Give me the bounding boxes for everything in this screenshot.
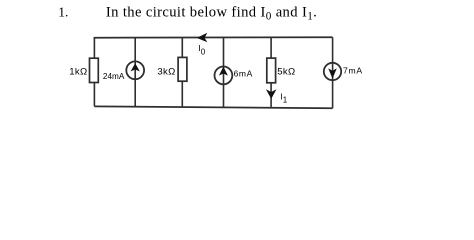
svg-text:3kΩ: 3kΩ xyxy=(157,67,175,78)
svg-text:1kΩ: 1kΩ xyxy=(69,67,87,78)
svg-text:In the circuit below find I0 a: In the circuit below find I0 and I1. xyxy=(106,5,317,23)
svg-text:24mA: 24mA xyxy=(103,72,125,81)
svg-text:1.: 1. xyxy=(58,4,68,19)
svg-text:I1: I1 xyxy=(280,92,287,105)
svg-text:I0: I0 xyxy=(198,43,205,56)
svg-text:5kΩ: 5kΩ xyxy=(277,67,295,78)
svg-text:7mA: 7mA xyxy=(343,65,363,75)
svg-text:6mA: 6mA xyxy=(234,69,253,79)
